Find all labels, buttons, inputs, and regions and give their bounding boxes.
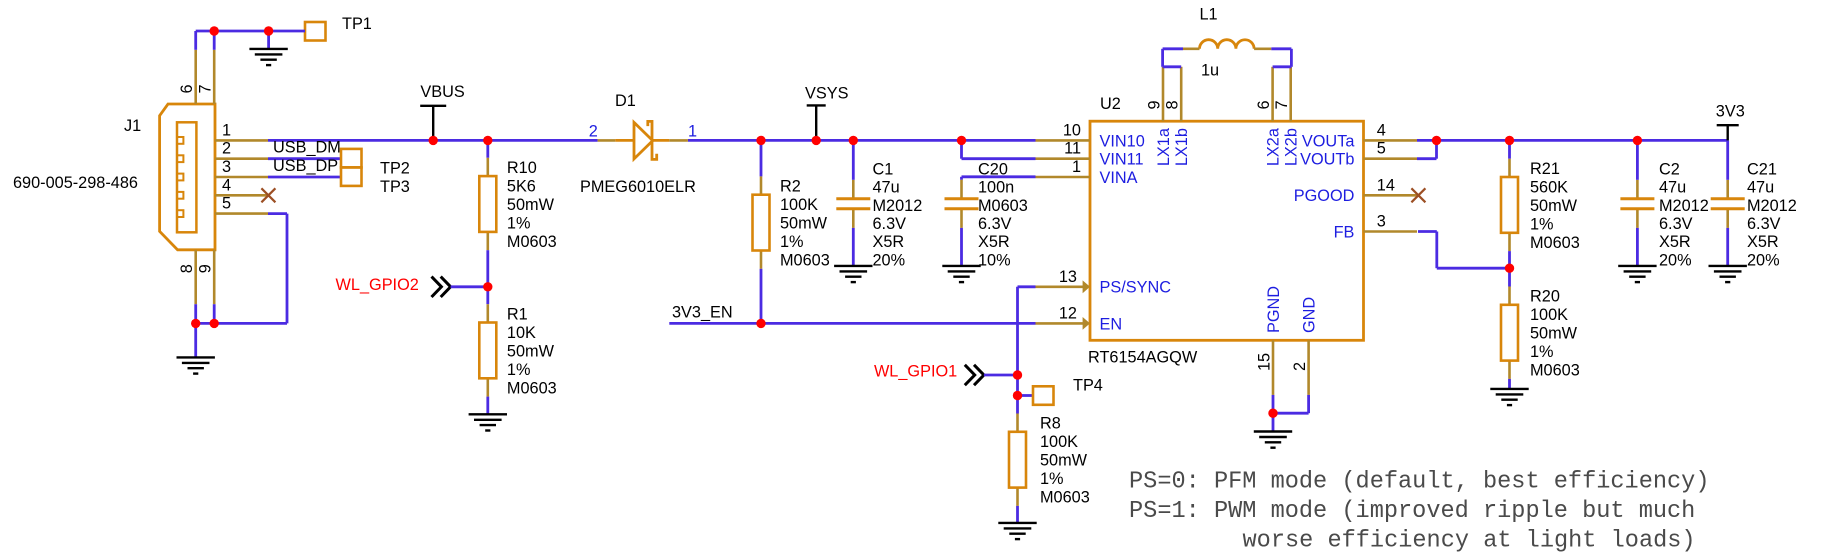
svg-text:1%: 1% bbox=[780, 233, 804, 251]
svg-text:5K6: 5K6 bbox=[507, 177, 536, 195]
svg-text:C1: C1 bbox=[873, 160, 894, 178]
svg-text:X5R: X5R bbox=[1659, 233, 1691, 251]
svg-text:C2: C2 bbox=[1659, 160, 1680, 178]
svg-text:1: 1 bbox=[1072, 158, 1081, 176]
svg-text:50mW: 50mW bbox=[780, 215, 828, 233]
svg-text:VIN10: VIN10 bbox=[1100, 132, 1145, 150]
svg-text:X5R: X5R bbox=[873, 233, 905, 251]
svg-text:5: 5 bbox=[222, 195, 231, 213]
svg-text:C21: C21 bbox=[1747, 160, 1777, 178]
svg-text:3: 3 bbox=[222, 158, 231, 176]
svg-text:15: 15 bbox=[1256, 353, 1274, 371]
svg-text:M0603: M0603 bbox=[1530, 234, 1580, 252]
svg-text:3V3_EN: 3V3_EN bbox=[672, 303, 733, 321]
svg-text:3V3: 3V3 bbox=[1716, 103, 1745, 121]
svg-text:1u: 1u bbox=[1201, 62, 1219, 80]
svg-text:3: 3 bbox=[1377, 213, 1386, 231]
svg-text:50mW: 50mW bbox=[507, 342, 555, 360]
svg-text:2: 2 bbox=[1291, 362, 1309, 371]
svg-text:47u: 47u bbox=[873, 179, 900, 197]
svg-text:50mW: 50mW bbox=[1530, 325, 1578, 343]
svg-text:C20: C20 bbox=[978, 160, 1008, 178]
svg-text:4: 4 bbox=[222, 176, 231, 194]
svg-text:U2: U2 bbox=[1100, 95, 1121, 113]
svg-text:TP3: TP3 bbox=[380, 178, 410, 196]
svg-text:6.3V: 6.3V bbox=[873, 215, 907, 233]
svg-text:LX1a: LX1a bbox=[1155, 127, 1173, 166]
svg-text:USB_DP: USB_DP bbox=[273, 157, 338, 175]
svg-text:13: 13 bbox=[1059, 268, 1077, 286]
svg-text:690-005-298-486: 690-005-298-486 bbox=[13, 174, 138, 192]
svg-text:7: 7 bbox=[197, 84, 215, 93]
svg-text:M2012: M2012 bbox=[1659, 197, 1709, 215]
svg-text:M2012: M2012 bbox=[1747, 197, 1797, 215]
svg-text:20%: 20% bbox=[873, 251, 906, 269]
svg-text:X5R: X5R bbox=[978, 233, 1010, 251]
svg-text:LX1b: LX1b bbox=[1173, 128, 1191, 166]
svg-text:R20: R20 bbox=[1530, 288, 1560, 306]
svg-text:100K: 100K bbox=[780, 196, 818, 214]
svg-text:100K: 100K bbox=[1530, 306, 1568, 324]
svg-text:RT6154AGQW: RT6154AGQW bbox=[1088, 348, 1198, 366]
svg-text:1: 1 bbox=[688, 122, 697, 140]
svg-text:WL_GPIO1: WL_GPIO1 bbox=[874, 363, 957, 381]
svg-text:M0603: M0603 bbox=[1040, 489, 1090, 507]
svg-text:J1: J1 bbox=[124, 117, 141, 135]
svg-text:PS=1: PWM mode (improved rippl: PS=1: PWM mode (improved ripple but much bbox=[1129, 498, 1695, 525]
svg-text:VIN11: VIN11 bbox=[1100, 151, 1144, 169]
svg-text:FB: FB bbox=[1334, 223, 1355, 241]
svg-text:PS/SYNC: PS/SYNC bbox=[1100, 279, 1172, 297]
svg-text:1%: 1% bbox=[507, 361, 531, 379]
svg-text:50mW: 50mW bbox=[507, 196, 555, 214]
svg-text:20%: 20% bbox=[1659, 251, 1692, 269]
svg-text:2: 2 bbox=[589, 122, 598, 140]
svg-text:1%: 1% bbox=[1530, 343, 1554, 361]
svg-text:GND: GND bbox=[1301, 297, 1319, 333]
svg-text:100K: 100K bbox=[1040, 433, 1078, 451]
svg-text:4: 4 bbox=[1377, 121, 1386, 139]
svg-text:6.3V: 6.3V bbox=[1659, 215, 1693, 233]
svg-text:VOUTa: VOUTa bbox=[1302, 132, 1355, 150]
svg-text:6.3V: 6.3V bbox=[1747, 215, 1781, 233]
svg-text:EN: EN bbox=[1100, 315, 1123, 333]
svg-text:12: 12 bbox=[1059, 304, 1077, 322]
svg-text:7: 7 bbox=[1273, 100, 1291, 109]
svg-text:USB_DM: USB_DM bbox=[273, 139, 341, 157]
svg-text:50mW: 50mW bbox=[1040, 452, 1088, 470]
svg-text:D1: D1 bbox=[615, 92, 636, 110]
svg-text:9: 9 bbox=[197, 264, 215, 273]
svg-text:10K: 10K bbox=[507, 324, 536, 342]
svg-text:6: 6 bbox=[1255, 100, 1273, 109]
svg-text:47u: 47u bbox=[1747, 179, 1774, 197]
svg-text:R10: R10 bbox=[507, 159, 537, 177]
svg-text:PMEG6010ELR: PMEG6010ELR bbox=[580, 178, 696, 196]
svg-text:PGOOD: PGOOD bbox=[1294, 187, 1355, 205]
svg-text:M0603: M0603 bbox=[507, 233, 557, 251]
svg-text:X5R: X5R bbox=[1747, 233, 1779, 251]
svg-text:R21: R21 bbox=[1530, 160, 1560, 178]
svg-text:M0603: M0603 bbox=[780, 252, 830, 270]
svg-text:M0603: M0603 bbox=[1530, 362, 1580, 380]
svg-text:VSYS: VSYS bbox=[805, 84, 849, 102]
svg-text:6.3V: 6.3V bbox=[978, 215, 1012, 233]
svg-text:1%: 1% bbox=[1530, 215, 1554, 233]
svg-text:PGND: PGND bbox=[1265, 286, 1283, 333]
svg-text:11: 11 bbox=[1064, 140, 1081, 158]
svg-text:100n: 100n bbox=[978, 179, 1014, 197]
svg-text:worse efficiency at light load: worse efficiency at light loads) bbox=[1243, 527, 1696, 554]
svg-text:2: 2 bbox=[222, 140, 231, 158]
svg-text:9: 9 bbox=[1146, 100, 1164, 109]
svg-text:M0603: M0603 bbox=[507, 379, 557, 397]
svg-text:6: 6 bbox=[178, 84, 196, 93]
svg-text:5: 5 bbox=[1377, 140, 1386, 158]
svg-text:14: 14 bbox=[1377, 176, 1395, 194]
svg-text:VBUS: VBUS bbox=[420, 83, 464, 101]
svg-text:8: 8 bbox=[178, 264, 196, 273]
svg-text:R2: R2 bbox=[780, 178, 801, 196]
svg-text:LX2a: LX2a bbox=[1265, 127, 1283, 166]
svg-text:TP1: TP1 bbox=[342, 15, 372, 33]
svg-text:1%: 1% bbox=[1040, 470, 1064, 488]
svg-text:8: 8 bbox=[1164, 100, 1182, 109]
svg-text:10: 10 bbox=[1063, 121, 1081, 139]
svg-text:R8: R8 bbox=[1040, 415, 1061, 433]
svg-text:TP4: TP4 bbox=[1073, 376, 1103, 394]
svg-text:560K: 560K bbox=[1530, 178, 1568, 196]
svg-text:1%: 1% bbox=[507, 214, 531, 232]
svg-text:50mW: 50mW bbox=[1530, 197, 1578, 215]
svg-text:PS=0: PFM mode (default, best: PS=0: PFM mode (default, best efficiency… bbox=[1129, 469, 1710, 496]
svg-text:10%: 10% bbox=[978, 251, 1011, 269]
svg-text:LX2b: LX2b bbox=[1283, 128, 1301, 166]
svg-text:L1: L1 bbox=[1200, 5, 1218, 23]
svg-text:VINA: VINA bbox=[1100, 169, 1138, 187]
svg-text:47u: 47u bbox=[1659, 179, 1686, 197]
svg-text:TP2: TP2 bbox=[380, 159, 410, 177]
svg-text:R1: R1 bbox=[507, 305, 528, 323]
svg-text:VOUTb: VOUTb bbox=[1300, 151, 1354, 169]
svg-text:M2012: M2012 bbox=[873, 197, 923, 215]
svg-text:1: 1 bbox=[222, 121, 231, 139]
svg-text:WL_GPIO2: WL_GPIO2 bbox=[336, 276, 419, 294]
svg-text:M0603: M0603 bbox=[978, 197, 1028, 215]
svg-text:20%: 20% bbox=[1747, 251, 1780, 269]
